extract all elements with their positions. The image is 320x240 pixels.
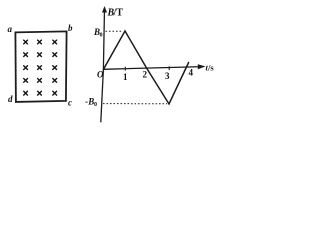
svg-text:4: 4	[189, 68, 194, 78]
svg-text:0: 0	[94, 102, 97, 108]
svg-text:1: 1	[123, 72, 128, 82]
svg-text:0: 0	[100, 33, 103, 39]
svg-text:a: a	[8, 24, 13, 34]
svg-text:d: d	[8, 94, 13, 104]
svg-text:O: O	[97, 70, 104, 80]
svg-text:c: c	[68, 98, 72, 108]
svg-text:2: 2	[143, 70, 148, 80]
svg-text:/T: /T	[113, 8, 124, 19]
svg-text:/s: /s	[207, 63, 214, 73]
svg-text:b: b	[68, 23, 73, 33]
svg-text:3: 3	[165, 71, 170, 81]
